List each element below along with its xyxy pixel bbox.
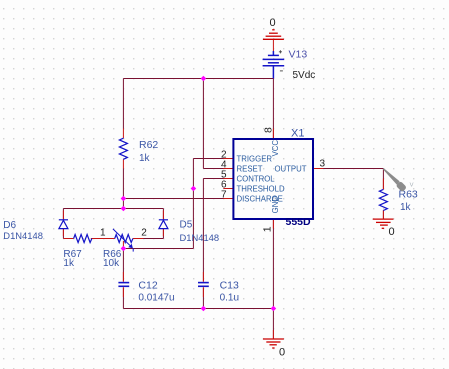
svg-text:7: 7 xyxy=(221,190,227,201)
wire pin3 OUTPUT xyxy=(313,168,383,170)
svg-text:555D: 555D xyxy=(286,216,312,228)
wire bottom rail xyxy=(123,308,273,310)
ground 0 bottom xyxy=(263,339,284,348)
wire pin3 to R63 xyxy=(382,169,384,220)
svg-text:10k: 10k xyxy=(103,258,120,269)
voltage probe xyxy=(383,168,400,185)
wire pin2 TRIGGER xyxy=(193,158,233,160)
svg-text:8: 8 xyxy=(262,127,274,133)
capacitor C12 xyxy=(118,283,129,287)
wire rail to R62 top xyxy=(122,79,124,129)
wire diode loop top xyxy=(63,208,163,210)
svg-text:VCC: VCC xyxy=(271,140,280,157)
wire wiper row xyxy=(123,248,193,250)
diode D6 xyxy=(59,220,68,229)
svg-text:D1N4148: D1N4148 xyxy=(180,232,220,243)
diode D5 xyxy=(159,220,168,229)
svg-text:GND: GND xyxy=(271,196,280,214)
red pin stubs xyxy=(63,39,383,339)
svg-text:5Vdc: 5Vdc xyxy=(293,70,316,81)
battery V13 xyxy=(263,51,285,79)
svg-text:CONTROL: CONTROL xyxy=(237,174,276,183)
svg-text:V: V xyxy=(410,183,414,189)
svg-text:X1: X1 xyxy=(291,128,304,140)
resistor R63 xyxy=(379,189,387,210)
wire node B vertical xyxy=(192,159,194,249)
svg-text:0: 0 xyxy=(389,226,395,238)
wire D5 column xyxy=(162,209,164,239)
svg-text:0: 0 xyxy=(270,17,276,29)
pot R66 wiper arrow xyxy=(113,229,130,246)
svg-text:C12: C12 xyxy=(138,280,157,292)
junction node dots xyxy=(121,76,277,312)
ground 0 right xyxy=(373,219,394,228)
op-amp/timer U1 555D box xyxy=(233,139,313,219)
svg-text:C13: C13 xyxy=(220,280,239,292)
svg-text:1: 1 xyxy=(100,228,106,239)
svg-text:0.1u: 0.1u xyxy=(220,293,239,304)
svg-text:0.0147u: 0.0147u xyxy=(138,293,174,304)
wire pin8 column xyxy=(272,79,274,139)
wire R62 bottom column xyxy=(122,169,124,209)
svg-text:R62: R62 xyxy=(139,139,158,151)
svg-text:V13: V13 xyxy=(289,49,308,61)
wire pin7 DISCHARGE xyxy=(123,198,233,200)
battery polarity marks xyxy=(279,50,282,53)
wire diode loop bottom row xyxy=(63,238,163,240)
resistor R67 xyxy=(74,235,92,243)
potentiometer R66 xyxy=(115,235,133,243)
wire pin5 CONTROL xyxy=(203,178,233,180)
wire C12 column xyxy=(122,249,124,309)
svg-text:RESET: RESET xyxy=(237,164,263,173)
wire pin1 to ground xyxy=(272,220,274,339)
svg-text:3: 3 xyxy=(320,159,326,170)
wire VCC to pin4 xyxy=(203,79,233,169)
svg-text:1k: 1k xyxy=(63,258,75,269)
svg-text:1: 1 xyxy=(262,226,274,232)
svg-text:D5: D5 xyxy=(180,220,193,231)
svg-text:1k: 1k xyxy=(139,153,151,164)
svg-text:OUTPUT: OUTPUT xyxy=(274,164,306,173)
resistor R62 xyxy=(119,138,127,159)
wire D6 column xyxy=(62,209,64,239)
svg-text:1k: 1k xyxy=(400,202,412,213)
svg-text:D1N4148: D1N4148 xyxy=(3,230,43,241)
capacitor C13 xyxy=(198,283,209,287)
svg-text:TRIGGER: TRIGGER xyxy=(237,154,273,163)
wire C13 column xyxy=(202,179,204,309)
svg-text:THRESHOLD: THRESHOLD xyxy=(237,184,285,193)
wire VCC rail xyxy=(123,78,273,80)
svg-text:2: 2 xyxy=(141,228,147,239)
ground 0 top (flipped) xyxy=(263,30,284,40)
svg-text:0: 0 xyxy=(279,347,285,359)
